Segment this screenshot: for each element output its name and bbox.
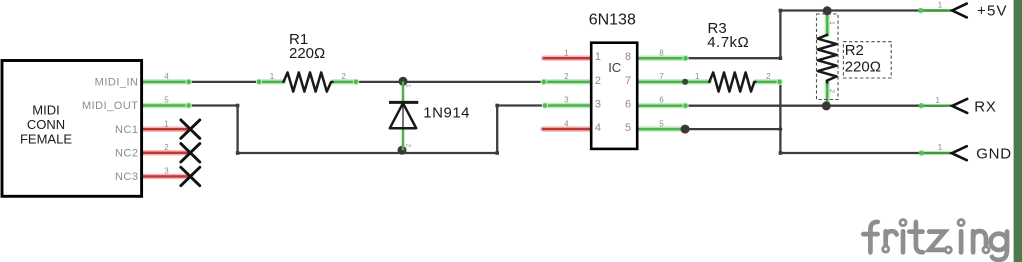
junction dot pin5 wire to vertical xyxy=(779,127,783,131)
z xyxy=(929,232,945,250)
i2 xyxy=(959,231,964,252)
R3 lead pin numbers xyxy=(695,72,771,81)
wire IC pin5 to GND vertical xyxy=(685,128,780,130)
red stub NC1 xyxy=(143,128,189,130)
svg-text:R2: R2 xyxy=(845,42,864,59)
svg-text:1: 1 xyxy=(938,1,943,10)
green lead R3 pin2 xyxy=(755,81,779,84)
svg-text:1: 1 xyxy=(935,96,940,105)
svg-text:1N914: 1N914 xyxy=(423,104,470,121)
r xyxy=(883,231,888,245)
green stub IC pin3 xyxy=(545,104,591,107)
label R1 value xyxy=(289,31,325,62)
red stub IC pin4 xyxy=(543,128,591,130)
svg-text:2: 2 xyxy=(405,144,412,148)
fritzing logo rings xyxy=(883,220,989,253)
svg-text:7: 7 xyxy=(659,72,664,81)
svg-text:1: 1 xyxy=(270,72,275,81)
svg-text:5: 5 xyxy=(625,122,632,134)
green wire halos xyxy=(143,11,827,130)
red wire halos xyxy=(143,58,591,176)
svg-text:2: 2 xyxy=(766,72,771,81)
svg-text:1: 1 xyxy=(405,84,412,88)
svg-text:2: 2 xyxy=(164,143,169,152)
connector arrow +5V xyxy=(952,4,967,18)
svg-text:FEMALE: FEMALE xyxy=(20,132,72,147)
IC outside stub pin numbers right xyxy=(659,48,664,128)
t xyxy=(916,222,923,252)
svg-text:IC: IC xyxy=(608,60,621,75)
svg-text:1: 1 xyxy=(695,72,700,81)
svg-text:CONN: CONN xyxy=(27,117,65,132)
IC outside stub pin numbers left xyxy=(564,48,569,128)
green stub IC pin2 xyxy=(544,81,591,84)
wire R3 right to GND rail (vertical) xyxy=(780,82,947,153)
diode rotated pin marks xyxy=(405,84,412,148)
svg-text:3: 3 xyxy=(164,167,169,176)
green stub IC pin6 xyxy=(638,104,686,107)
green lead R1 pin2 xyxy=(333,81,357,84)
svg-text:6: 6 xyxy=(625,98,632,110)
svg-text:4: 4 xyxy=(595,122,601,134)
svg-text:GND: GND xyxy=(976,146,1012,163)
label R2 value in dashed box xyxy=(843,42,891,78)
green stub RX pin 1 xyxy=(921,104,951,106)
svg-text:8: 8 xyxy=(659,48,664,57)
MIDI connector box xyxy=(2,61,142,197)
svg-text:NC3: NC3 xyxy=(115,171,139,183)
wire IC pin8 to +5V rail xyxy=(685,11,947,59)
red stub IC pin1 xyxy=(544,57,591,59)
green stub IC pin8 xyxy=(638,57,686,60)
wire MIDI_IN to R1 (dark segment) xyxy=(189,81,259,83)
fritzing logo xyxy=(863,222,1007,260)
svg-text:1: 1 xyxy=(164,119,169,128)
svg-text:MIDI_OUT: MIDI_OUT xyxy=(82,100,139,112)
green lead R2 pin1 xyxy=(826,11,829,35)
svg-text:5: 5 xyxy=(659,119,664,128)
green stub MIDI_IN pin 4 xyxy=(143,81,189,84)
svg-text:+5V: +5V xyxy=(977,3,1008,20)
svg-text:6N138: 6N138 xyxy=(589,11,636,28)
svg-text:2: 2 xyxy=(564,72,569,81)
red stub NC2 xyxy=(143,152,189,154)
connector arrow GND xyxy=(952,146,967,160)
svg-text:1: 1 xyxy=(595,51,601,63)
svg-text:6: 6 xyxy=(659,96,664,105)
junction dot R2 bottom on RX xyxy=(822,101,831,110)
green stub +5V pin 1 xyxy=(921,9,952,11)
diode D1 lead (green, behind symbol) xyxy=(402,81,405,150)
R1 lead pin numbers xyxy=(270,72,347,81)
resistor R2 zigzag (vertical) xyxy=(818,35,837,83)
MIDI box pin name labels xyxy=(82,77,139,184)
svg-text:MIDI_IN: MIDI_IN xyxy=(95,77,139,89)
diode D1 1N914 symbol xyxy=(389,102,418,128)
green stub IC pin5 xyxy=(638,128,685,131)
green lead IC pin7 to R3 pin1 xyxy=(638,81,709,84)
n xyxy=(971,231,976,252)
green lead R2 pin2 xyxy=(826,83,829,104)
X mark NC2 xyxy=(181,144,200,162)
connector stub pin numbers xyxy=(935,1,942,153)
svg-text:2: 2 xyxy=(828,89,835,93)
svg-text:NC1: NC1 xyxy=(115,124,139,136)
svg-text:5: 5 xyxy=(164,96,169,105)
svg-text:1: 1 xyxy=(564,48,569,57)
svg-text:4: 4 xyxy=(164,72,169,81)
junction dot diode top / pin2 net xyxy=(399,77,408,86)
green wire endpoint dots xyxy=(186,8,925,156)
wire R1 to IC pin2 (dark segment) xyxy=(356,81,545,83)
resistor R3 zigzag xyxy=(709,72,755,91)
resistor R1 zigzag xyxy=(284,72,333,91)
IC inside pin numbers left xyxy=(595,51,601,134)
red stub NC3 xyxy=(143,175,189,177)
red wire cores xyxy=(143,58,591,176)
svg-text:1: 1 xyxy=(828,21,835,25)
f xyxy=(870,222,877,252)
green sidebar xyxy=(1014,0,1022,262)
g xyxy=(991,234,1007,250)
junction dot diode bottom xyxy=(398,146,407,155)
i1 xyxy=(901,231,906,252)
svg-text:2: 2 xyxy=(595,75,601,87)
X mark NC1 xyxy=(181,120,200,138)
junction dot R2 top on +5V rail xyxy=(823,6,832,15)
svg-text:2: 2 xyxy=(341,72,346,81)
svg-text:220Ω: 220Ω xyxy=(289,45,325,62)
label R3 value xyxy=(707,20,749,51)
svg-text:4: 4 xyxy=(564,119,569,128)
MIDI box title text xyxy=(20,103,72,147)
svg-text:1: 1 xyxy=(938,143,943,152)
wire MIDI_OUT to IC pin3 (dark path) xyxy=(189,106,546,154)
wire IC pin6 to RX xyxy=(685,105,947,107)
svg-text:3: 3 xyxy=(564,96,569,105)
green lead R1 pin1 xyxy=(259,81,284,84)
green wire cores xyxy=(143,11,951,154)
R2 selection dashed box xyxy=(817,14,839,100)
junction dot R3/pin7 xyxy=(682,79,688,85)
svg-text:NC2: NC2 xyxy=(115,148,139,160)
X mark NC3 xyxy=(181,167,200,185)
junction dot pin5 xyxy=(681,125,690,134)
svg-text:4.7kΩ: 4.7kΩ xyxy=(707,34,749,51)
IC inside pin numbers right xyxy=(625,51,632,134)
MIDI box pin number labels xyxy=(164,72,169,176)
green stub MIDI_OUT pin 5 xyxy=(143,104,189,107)
R2 rotated pin numbers xyxy=(828,21,835,93)
svg-text:220Ω: 220Ω xyxy=(845,58,881,75)
connector arrow RX xyxy=(952,99,967,113)
op-amp / optocoupler IC 6N138 box xyxy=(591,43,637,149)
svg-text:7: 7 xyxy=(625,75,632,87)
svg-text:3: 3 xyxy=(595,98,601,110)
svg-text:MIDI: MIDI xyxy=(32,103,59,118)
bend point squares xyxy=(236,9,782,155)
svg-text:RX: RX xyxy=(974,98,996,115)
green stub GND pin 1 xyxy=(921,152,951,154)
svg-text:8: 8 xyxy=(625,51,632,63)
